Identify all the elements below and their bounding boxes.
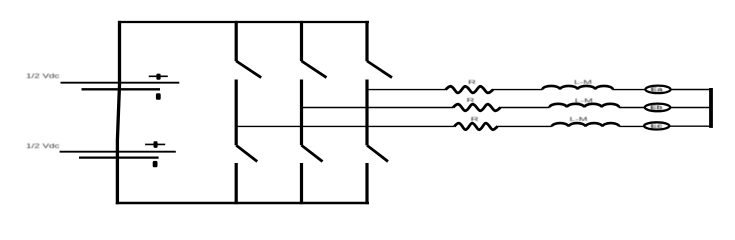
switch leg 3 upper vertical bbox=[365, 21, 368, 61]
inductor L-M (phase C) bbox=[542, 86, 612, 90]
switch leg 1 middle vertical bbox=[235, 80, 238, 146]
resistor R (phase B) bbox=[453, 104, 501, 111]
switch S5 blade (lower, leg 2) bbox=[302, 145, 323, 161]
svg-text:Ea: Ea bbox=[651, 87, 664, 93]
svg-text:R: R bbox=[471, 117, 479, 123]
wire bottom DC rail bbox=[116, 202, 369, 204]
source Ec (phase A) bbox=[644, 122, 669, 129]
resistor R (phase A) bbox=[454, 123, 497, 130]
resistor R (phase C) bbox=[446, 86, 494, 93]
wire right neutral bus bbox=[709, 88, 713, 128]
inductor L-M (phase A) bbox=[552, 123, 620, 126]
switch S6 blade (lower, leg 3) bbox=[367, 145, 388, 161]
inductor L-M (phase B) bbox=[550, 104, 620, 108]
switch leg 3 middle vertical bbox=[365, 80, 368, 146]
svg-text:Eb: Eb bbox=[650, 105, 663, 111]
wire left DC bus bbox=[117, 21, 119, 204]
battery B1 plus sign bbox=[149, 74, 168, 80]
battery B1 top plate bbox=[61, 82, 180, 84]
svg-text:R: R bbox=[468, 80, 476, 86]
battery B2 minus sign bbox=[153, 161, 158, 167]
battery B1 minus sign bbox=[156, 93, 161, 100]
svg-text:R: R bbox=[467, 98, 475, 104]
switch S3 blade (upper, leg 3) bbox=[367, 61, 392, 78]
switch leg 3 lower vertical bbox=[365, 163, 368, 204]
switch S4 blade (lower, leg 1) bbox=[236, 145, 257, 161]
switch leg 1 lower vertical bbox=[235, 163, 238, 204]
svg-text:L-M: L-M bbox=[574, 80, 593, 86]
svg-text:L-M: L-M bbox=[570, 117, 589, 123]
switch S2 blade (upper, leg 2) bbox=[302, 61, 327, 78]
battery B2 bottom plate bbox=[79, 156, 159, 158]
phase A output wire (node A, y=126.4) bbox=[236, 125, 454, 127]
wire top DC rail bbox=[118, 21, 369, 23]
switch leg 2 middle vertical bbox=[300, 80, 303, 146]
svg-text:1/2 Vdc: 1/2 Vdc bbox=[26, 73, 60, 80]
svg-text:1/2 Vdc: 1/2 Vdc bbox=[26, 143, 60, 150]
source Ea (phase C) bbox=[645, 86, 670, 94]
phase B output wire (node B, y=107.5) bbox=[302, 107, 454, 109]
battery B1 bottom plate bbox=[82, 88, 161, 90]
switch leg 2 upper vertical bbox=[300, 21, 303, 61]
switch leg 1 upper vertical bbox=[235, 21, 238, 61]
battery B2 top plate bbox=[60, 151, 176, 153]
svg-text:Ec: Ec bbox=[651, 124, 664, 130]
switch leg 2 lower vertical bbox=[300, 163, 303, 204]
switch S1 blade (upper, leg 1) bbox=[236, 61, 261, 78]
source Eb (phase B) bbox=[645, 104, 670, 112]
svg-text:L-M: L-M bbox=[575, 98, 594, 104]
battery B2 plus sign bbox=[145, 141, 165, 148]
phase C output wire (node C, y=89.6) bbox=[367, 89, 446, 91]
